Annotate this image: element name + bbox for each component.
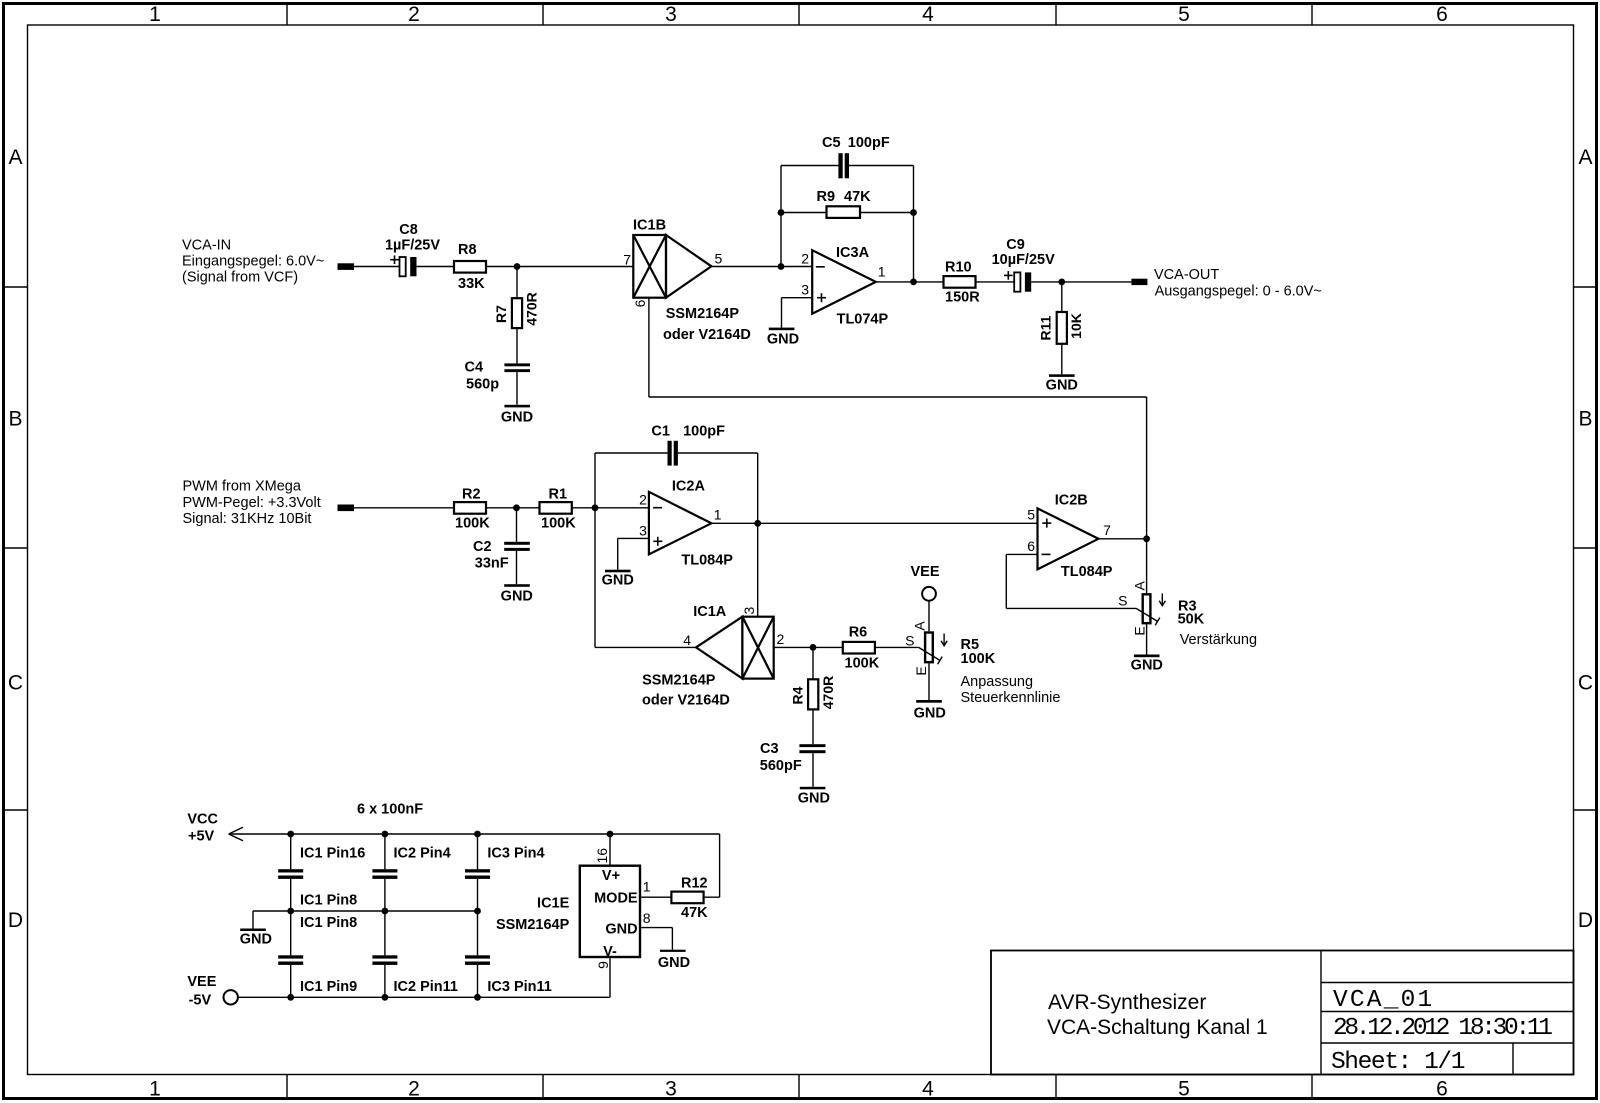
wire C9 to VCA-OUT [1031, 281, 1131, 283]
svg-text:16: 16 [594, 848, 610, 864]
wire C3 to ground [812, 753, 814, 787]
svg-text:100K: 100K [845, 656, 880, 672]
node VCA-IN annotation [182, 238, 324, 286]
junction R11 [1058, 279, 1065, 286]
svg-text:VCC: VCC [187, 812, 218, 828]
wire IC1B out to IC3A pin2 [711, 266, 812, 268]
svg-text:3: 3 [665, 1078, 677, 1101]
wire down right side [1146, 397, 1148, 539]
svg-text:C8: C8 [399, 222, 418, 238]
svg-text:IC1A: IC1A [693, 604, 727, 620]
title block [991, 951, 1574, 1077]
svg-text:VCA-IN: VCA-IN [182, 238, 231, 254]
svg-text:+5V: +5V [188, 829, 215, 845]
capacitor IC2 Pin11 bypass [372, 911, 397, 997]
ground below R3 [1131, 655, 1163, 674]
junction R4 [810, 644, 817, 651]
wire IC1E pin16 [609, 834, 611, 865]
wire C5 top right [849, 165, 914, 167]
ground below IC3A pin3 [767, 328, 799, 348]
svg-text:9: 9 [595, 961, 611, 969]
svg-text:100pF: 100pF [683, 424, 725, 440]
svg-text:Signal: 31KHz 10Bit: Signal: 31KHz 10Bit [183, 511, 312, 527]
wire node to R3 [1146, 539, 1148, 593]
svg-text:C4: C4 [465, 360, 484, 376]
potentiometer R3 [1136, 593, 1165, 625]
svg-text:7: 7 [623, 252, 631, 268]
svg-text:GND: GND [602, 573, 634, 589]
svg-text:28.12.2012 18:30:11: 28.12.2012 18:30:11 [1333, 1015, 1552, 1042]
op-amp VCA cell IC1A [696, 617, 774, 679]
svg-text:5: 5 [715, 251, 723, 267]
svg-text:4: 4 [922, 1078, 934, 1101]
svg-text:C: C [8, 672, 23, 695]
junction IC2B out [1143, 535, 1150, 542]
svg-text:IC2A: IC2A [672, 479, 706, 495]
svg-text:IC1E: IC1E [537, 895, 570, 911]
svg-text:Steuerkennlinie: Steuerkennlinie [961, 690, 1061, 706]
svg-text:D: D [8, 909, 23, 932]
svg-text:Ausgangspegel: 0 - 6.0V~: Ausgangspegel: 0 - 6.0V~ [1155, 284, 1322, 300]
svg-text:TL074P: TL074P [837, 311, 889, 327]
svg-text:3: 3 [801, 282, 809, 298]
svg-text:7: 7 [1103, 522, 1111, 538]
svg-text:IC3 Pin11: IC3 Pin11 [487, 979, 551, 995]
svg-text:R7: R7 [493, 305, 509, 323]
node PWM annotation [183, 479, 321, 528]
svg-text:1: 1 [149, 1078, 161, 1101]
wire R5 to ground [928, 663, 930, 700]
svg-text:A: A [1132, 580, 1148, 590]
ground below R5 [914, 700, 946, 722]
annotation Anpassung Steuerkennlinie [961, 674, 1061, 706]
svg-text:2: 2 [639, 491, 647, 507]
svg-text:R10: R10 [945, 260, 972, 276]
svg-text:4: 4 [683, 632, 691, 648]
junction VCC rail 2 [382, 831, 389, 838]
svg-text:R2: R2 [462, 487, 481, 503]
svg-text:E: E [1131, 626, 1147, 635]
wire feedback left vertical [780, 166, 782, 267]
wire GND pin [641, 927, 672, 929]
svg-text:PWM from XMega: PWM from XMega [183, 479, 302, 495]
wire ground bus [253, 910, 478, 912]
svg-text:SSM2164P: SSM2164P [642, 673, 716, 689]
wire R9 right [860, 212, 914, 214]
svg-text:AVR-Synthesizer: AVR-Synthesizer [1048, 991, 1206, 1014]
wire IC1E pin9 [609, 958, 611, 997]
op-amp VCA cell IC1B [633, 235, 711, 298]
capacitor C2 [504, 542, 530, 551]
svg-text:6: 6 [1436, 1078, 1448, 1101]
svg-text:V-: V- [603, 944, 617, 960]
junction VEE rail 2 [382, 994, 389, 1001]
wire junction to C2 [516, 508, 518, 542]
resistor R9 [827, 206, 861, 218]
svg-text:C3: C3 [760, 741, 779, 757]
capacitor C4 [504, 363, 530, 372]
svg-text:150R: 150R [945, 289, 980, 305]
svg-text:100K: 100K [541, 515, 576, 531]
junction R9 left [778, 209, 785, 216]
wire VEE rail [238, 996, 610, 998]
wire feedback right vertical [913, 166, 915, 282]
svg-text:VCA_01: VCA_01 [1333, 987, 1434, 1014]
svg-text:6: 6 [1436, 3, 1448, 26]
wire MODE to R12 [641, 896, 671, 898]
capacitor IC3 Pin11 bypass [465, 911, 490, 997]
resistor R10 [944, 276, 976, 288]
svg-text:(Signal from VCF): (Signal from VCF) [182, 270, 298, 286]
wire C2 to ground [516, 551, 518, 584]
svg-text:IC3 Pin4: IC3 Pin4 [487, 846, 544, 862]
wire IC3A pin3 [782, 297, 813, 299]
svg-text:R9: R9 [817, 189, 836, 205]
wire junction to R7 [516, 267, 518, 298]
svg-text:3: 3 [639, 522, 647, 538]
wire VCA-IN to C8 [354, 266, 400, 268]
svg-text:IC3A: IC3A [836, 245, 870, 261]
svg-text:Verstärkung: Verstärkung [1180, 632, 1257, 648]
junction VEE rail 1 [287, 994, 294, 1001]
svg-text:Eingangspegel: 6.0V~: Eingangspegel: 6.0V~ [182, 254, 324, 270]
wire R2 to R1 [486, 507, 540, 509]
wire IC2B feedback [1006, 553, 1037, 555]
svg-text:A: A [8, 146, 22, 169]
resistor R2 [454, 502, 486, 514]
potentiometer R5 [919, 633, 948, 665]
junction R2/C2 [513, 504, 520, 511]
wire R4 to C3 [812, 710, 814, 744]
wire R11 to ground [1061, 345, 1063, 375]
resistor R8 [454, 261, 486, 273]
svg-text:3: 3 [665, 3, 677, 26]
svg-text:GND: GND [914, 706, 946, 722]
junction ground bus 2 [382, 908, 389, 915]
svg-text:560pF: 560pF [760, 758, 802, 774]
svg-text:B: B [8, 408, 22, 431]
svg-text:GND: GND [1046, 378, 1078, 394]
svg-text:C9: C9 [1006, 237, 1025, 253]
wire C4 to ground [516, 372, 518, 405]
svg-text:E: E [913, 666, 929, 675]
svg-text:GND: GND [240, 932, 272, 948]
svg-text:MODE: MODE [594, 891, 638, 907]
svg-text:4: 4 [922, 3, 934, 26]
IC1E mode block [580, 866, 640, 957]
svg-text:V+: V+ [602, 868, 620, 884]
wire C8 to R8 [417, 266, 455, 268]
wire IC2A pin3 [618, 537, 649, 539]
svg-text:8: 8 [643, 910, 651, 926]
wire IC1B pin6 down [648, 298, 650, 397]
junction R8/R7 [514, 263, 521, 270]
wire C1 left vertical [594, 453, 596, 508]
svg-text:IC1 Pin8: IC1 Pin8 [300, 915, 357, 931]
wire C5 top left [781, 165, 838, 167]
capacitor C9 [1004, 271, 1031, 292]
svg-text:1: 1 [878, 263, 886, 279]
svg-text:VEE: VEE [910, 564, 939, 580]
node VEE annotation [187, 974, 216, 1009]
svg-text:10µF/25V: 10µF/25V [992, 252, 1055, 268]
svg-text:IC1B: IC1B [633, 218, 666, 234]
ground below IC2A pin3 [602, 570, 634, 589]
junction VEE rail 3 [474, 994, 481, 1001]
wire IC2A out to IC2B pin5 [711, 522, 1037, 524]
ground below C4 [501, 405, 533, 426]
svg-text:R1: R1 [549, 487, 568, 503]
svg-text:-5V: -5V [189, 993, 212, 1009]
svg-text:2: 2 [801, 251, 809, 267]
svg-text:2: 2 [777, 631, 785, 647]
junction R9 right [910, 209, 917, 216]
svg-text:GND: GND [501, 410, 533, 426]
svg-text:33K: 33K [458, 276, 485, 292]
svg-text:5: 5 [1178, 1078, 1190, 1101]
svg-text:IC1 Pin9: IC1 Pin9 [300, 979, 357, 995]
svg-text:oder V2164D: oder V2164D [642, 692, 730, 708]
svg-text:47K: 47K [844, 189, 871, 205]
svg-text:PWM-Pegel: +3.3Volt: PWM-Pegel: +3.3Volt [183, 495, 321, 511]
svg-text:IC2 Pin11: IC2 Pin11 [394, 979, 458, 995]
svg-text:Sheet: 1/1: Sheet: 1/1 [1331, 1049, 1465, 1076]
svg-text:50K: 50K [1178, 612, 1205, 628]
svg-text:33nF: 33nF [475, 556, 509, 572]
svg-text:100K: 100K [455, 515, 490, 531]
node VCC annotation [187, 812, 218, 845]
svg-text:6: 6 [632, 299, 648, 307]
wire R9 left [781, 212, 827, 214]
node VCA-OUT terminal [1131, 279, 1147, 285]
capacitor IC1 Pin16 bypass [278, 834, 303, 911]
wire PWM to R2 [354, 507, 454, 509]
ground below R11 [1046, 374, 1078, 393]
capacitor C8 [390, 255, 416, 276]
wire C1 top left [595, 452, 668, 454]
svg-text:IC2 Pin4: IC2 Pin4 [394, 846, 451, 862]
wire IC2B out [1098, 538, 1146, 540]
ground below C2 [501, 584, 533, 604]
svg-text:1: 1 [643, 879, 651, 895]
resistor R7 [512, 298, 522, 328]
wire R12 to VCC loop [704, 896, 720, 898]
svg-text:GND: GND [798, 791, 830, 807]
svg-text:A: A [911, 621, 927, 631]
resistor R4 [808, 679, 818, 709]
node PWM terminal [338, 505, 355, 512]
svg-text:A: A [1578, 146, 1592, 169]
svg-text:IC2B: IC2B [1055, 492, 1088, 508]
svg-text:6: 6 [1027, 538, 1035, 554]
wire R8 to IC1B pin7 [486, 266, 633, 268]
junction VCC rail 1 [287, 831, 294, 838]
node VCA-IN terminal [338, 263, 355, 270]
wire R1 to IC2A pin2 [572, 507, 649, 509]
svg-text:6 x 100nF: 6 x 100nF [357, 802, 423, 818]
svg-text:VEE: VEE [187, 974, 216, 990]
svg-text:1µF/25V: 1µF/25V [385, 238, 440, 254]
svg-text:2: 2 [408, 1078, 420, 1101]
svg-text:IC1 Pin16: IC1 Pin16 [300, 846, 365, 862]
svg-text:R12: R12 [681, 875, 708, 891]
capacitor IC2 Pin4 bypass [372, 834, 397, 911]
svg-text:3: 3 [741, 606, 757, 614]
svg-text:TL084P: TL084P [1061, 564, 1113, 580]
resistor R12 [671, 892, 703, 904]
ground below C3 [798, 787, 830, 807]
svg-text:R11: R11 [1037, 315, 1053, 340]
node VEE (R5) [910, 564, 939, 631]
svg-text:2: 2 [408, 3, 420, 26]
svg-text:IC1 Pin8: IC1 Pin8 [300, 892, 357, 908]
wire R7 to C4 [516, 329, 518, 364]
junction IC2A out [754, 520, 761, 527]
svg-text:GND: GND [1131, 658, 1163, 674]
wire junction to R4 [812, 647, 814, 678]
capacitor C1 [668, 441, 678, 466]
capacitor C3 [799, 744, 825, 753]
svg-text:C1: C1 [651, 424, 670, 440]
wire IC3A out to R10 [876, 281, 944, 283]
svg-text:Anpassung: Anpassung [961, 674, 1034, 690]
svg-text:560p: 560p [466, 376, 499, 392]
svg-text:SSM2164P: SSM2164P [666, 306, 740, 322]
capacitor IC3 Pin4 bypass [465, 834, 490, 911]
svg-text:C: C [1578, 672, 1593, 695]
svg-text:R8: R8 [458, 242, 477, 258]
svg-text:GND: GND [501, 588, 533, 604]
wire R12 loop right [719, 834, 721, 897]
op-amp IC2B [1038, 508, 1099, 569]
ground below IC1E [658, 950, 690, 971]
svg-text:470R: 470R [524, 292, 540, 325]
svg-text:VCA-Schaltung Kanal 1: VCA-Schaltung Kanal 1 [1047, 1016, 1268, 1039]
svg-text:B: B [1578, 408, 1592, 431]
wire VCC rail [229, 833, 720, 835]
svg-text:100pF: 100pF [848, 135, 890, 151]
wire R6 to R5 wiper [875, 646, 919, 648]
node VCA-OUT annotation [1154, 267, 1322, 300]
junction output/feedback [910, 279, 917, 286]
wire IC1A pin2 to R6 [774, 646, 843, 648]
wire ground stub [252, 911, 254, 929]
svg-text:470R: 470R [820, 676, 836, 709]
svg-text:5: 5 [1178, 3, 1190, 26]
svg-text:S: S [1118, 593, 1127, 609]
svg-text:VCA-OUT: VCA-OUT [1154, 267, 1219, 283]
resistor R11 [1057, 312, 1067, 344]
op-amp IC2A [649, 492, 712, 555]
svg-text:oder V2164D: oder V2164D [663, 327, 751, 343]
op-amp IC3A [812, 250, 876, 314]
junction ground bus 3 [474, 908, 481, 915]
svg-text:GND: GND [658, 955, 690, 971]
svg-text:1: 1 [714, 507, 722, 523]
svg-text:D: D [1578, 909, 1593, 932]
wire IC1B pin6 across to IC2B output node [649, 396, 1147, 398]
junction ground bus 1 [287, 908, 294, 915]
svg-text:100K: 100K [961, 651, 996, 667]
node VEE circle [224, 990, 238, 1004]
junction virtual ground node [592, 504, 599, 511]
ground bus symbol [240, 929, 272, 948]
svg-text:C5: C5 [822, 135, 841, 151]
svg-text:GND: GND [605, 922, 637, 938]
node VCC arrow [229, 827, 243, 841]
svg-text:10K: 10K [1068, 313, 1084, 339]
svg-text:1: 1 [149, 3, 161, 26]
svg-text:SSM2164P: SSM2164P [496, 917, 570, 933]
svg-text:5: 5 [1027, 507, 1035, 523]
capacitor IC1 Pin9 bypass [278, 911, 303, 997]
junction VCC rail 3 [474, 831, 481, 838]
svg-text:TL084P: TL084P [681, 552, 733, 568]
wire C1 top right [678, 452, 758, 454]
svg-text:C2: C2 [473, 539, 492, 555]
wire R3 to ground [1146, 624, 1148, 654]
junction feedback left [778, 263, 785, 270]
svg-text:47K: 47K [681, 905, 708, 921]
svg-text:GND: GND [767, 332, 799, 348]
wire down to IC1A pin3 [757, 453, 759, 617]
wire node to IC1A pin4 [594, 508, 596, 648]
wire R10 to C9 [976, 281, 1015, 283]
junction VCC rail 4 [607, 831, 614, 838]
svg-text:R4: R4 [790, 686, 806, 704]
svg-text:R6: R6 [849, 624, 868, 640]
capacitor C5 [838, 153, 849, 178]
resistor R6 [843, 642, 875, 654]
wire junction to R11 [1061, 282, 1063, 311]
svg-text:S: S [905, 633, 914, 649]
resistor R1 [540, 502, 572, 514]
